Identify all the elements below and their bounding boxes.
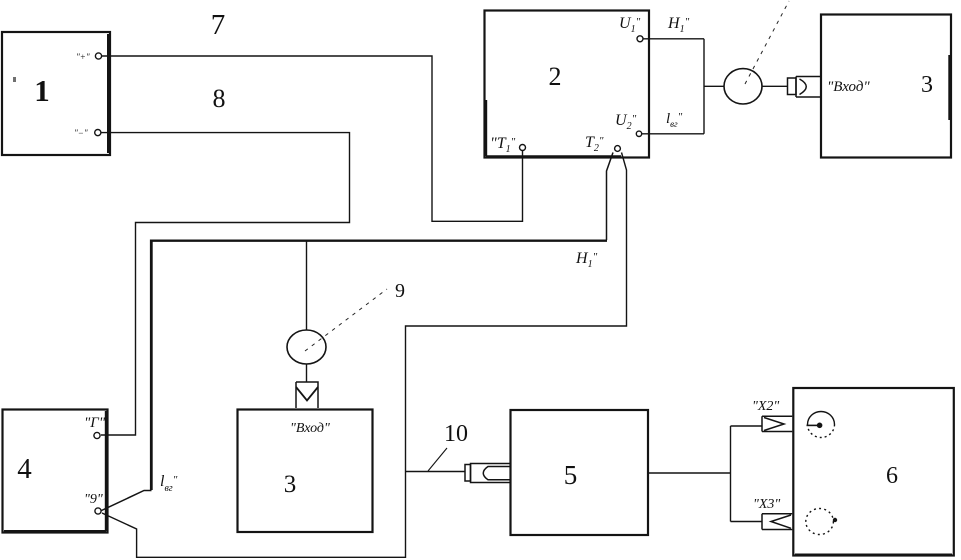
socket symbol top (inside block 6) bbox=[807, 412, 835, 438]
wire block5 out to branch bbox=[648, 472, 731, 474]
block 4 bbox=[3, 410, 108, 533]
svg-text:6: 6 bbox=[886, 463, 898, 489]
leader line 9 (dashed) bbox=[305, 289, 387, 351]
terminal - of block 1 bbox=[74, 128, 101, 138]
svg-text:"Вход": "Вход" bbox=[827, 79, 870, 95]
svg-text:"9": "9" bbox=[84, 492, 103, 507]
block 5 bbox=[511, 410, 649, 535]
leader line 10 bbox=[428, 448, 447, 471]
wire U2 to junction bbox=[642, 133, 704, 135]
scan speck near block 1 bbox=[13, 77, 16, 82]
connector into block 5 bbox=[465, 464, 511, 483]
svg-text:7: 7 bbox=[211, 9, 226, 41]
wire junction vertical bbox=[703, 39, 705, 134]
terminal + of block 1 bbox=[76, 52, 102, 62]
svg-text:"Вход": "Вход" bbox=[290, 421, 330, 436]
svg-text:5: 5 bbox=[564, 460, 578, 490]
lamp circle 9 (middle) bbox=[287, 330, 326, 364]
wire lamp to connector bbox=[762, 85, 788, 87]
wire T2 return loop (right line, bottom path to terminal 9) bbox=[102, 153, 627, 558]
block 3 (middle) bbox=[238, 410, 373, 533]
block 6 bbox=[793, 388, 954, 556]
socket symbol bottom (inside block 6) bbox=[806, 509, 834, 535]
block 2 bbox=[485, 11, 650, 158]
svg-text:3: 3 bbox=[921, 72, 933, 98]
branch vertical bbox=[730, 426, 732, 522]
svg-text:"Г": "Г" bbox=[84, 415, 106, 431]
connector into block 3 (top) bbox=[788, 77, 822, 98]
wire to lamp 9 (from heavy wire down) bbox=[306, 241, 308, 330]
svg-text:1: 1 bbox=[34, 73, 50, 108]
wire junction to lamp bbox=[704, 85, 725, 87]
terminal U1 of block 2 bbox=[619, 15, 643, 42]
svg-text:"+": "+" bbox=[76, 52, 90, 62]
wire to X2 bbox=[731, 425, 763, 427]
svg-text:4: 4 bbox=[17, 453, 32, 485]
connector X3 bbox=[762, 514, 792, 530]
wire to X3 bbox=[731, 521, 763, 523]
connector into block 3 (middle) bbox=[296, 382, 318, 408]
svg-text:2: 2 bbox=[549, 62, 562, 91]
terminal T2 of block 2 bbox=[585, 134, 620, 154]
terminal T1 of block 2 bbox=[490, 135, 526, 155]
svg-text:"Х3": "Х3" bbox=[753, 497, 780, 512]
terminal U2 of block 2 bbox=[615, 112, 642, 137]
svg-text:10: 10 bbox=[444, 421, 468, 447]
connector X2 bbox=[762, 416, 792, 431]
terminal 9 of block 4 bbox=[84, 492, 103, 514]
terminal Г of block 4 bbox=[84, 415, 106, 439]
block 1 bbox=[2, 32, 110, 155]
heavy wire H1: T2 to l_vg end bbox=[102, 153, 614, 511]
svg-text:"−": "−" bbox=[74, 128, 88, 138]
svg-text:"Х2": "Х2" bbox=[752, 399, 779, 414]
svg-text:3: 3 bbox=[284, 471, 297, 498]
wire 8 (block1 - to block4 Г) bbox=[101, 133, 350, 435]
lamp circle (top) bbox=[724, 69, 762, 104]
leader line top (dashed) bbox=[745, 1, 789, 84]
block 3 (top right) bbox=[821, 15, 951, 158]
svg-text:8: 8 bbox=[213, 84, 226, 113]
wire lamp 9 to connector bbox=[306, 364, 308, 382]
wire 7 (block1 + to block2 T1) bbox=[102, 56, 523, 221]
wire 10 (to block 5 connector) bbox=[406, 471, 466, 473]
svg-text:9: 9 bbox=[395, 280, 405, 302]
wire U1 to junction bbox=[643, 38, 704, 40]
